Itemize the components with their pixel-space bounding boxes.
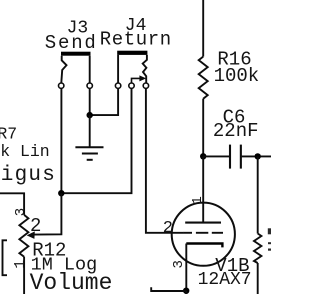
svg-text:Return: Return: [100, 28, 172, 50]
grid dashes of V1B: [183, 232, 223, 234]
wire R16 to plate junction: [202, 99, 204, 157]
jack J4 terminal circle middle: [129, 83, 134, 88]
jack J3 body bar: [61, 52, 91, 56]
ground symbol: [75, 147, 103, 160]
jack J3 switch contact: [61, 56, 66, 83]
jack J4 switch contact: [143, 55, 147, 83]
junction dot send/return/wiper node: [58, 190, 64, 196]
junction dot ground node: [87, 112, 93, 118]
junction dot right node: [255, 153, 261, 159]
wire cathode node to left with stub up: [151, 287, 186, 291]
svg-text:Volume: Volume: [30, 270, 113, 294]
svg-text:3: 3: [171, 260, 187, 268]
triode V1B envelope: [172, 203, 235, 266]
jack J3 terminal circle right: [87, 83, 92, 88]
svg-text:12AX7: 12AX7: [198, 270, 252, 290]
wire J3 right terminal down to ground junction: [89, 88, 91, 115]
wire J3 left terminal down to junction: [60, 88, 62, 193]
svg-text:3: 3: [13, 208, 29, 216]
svg-text:1: 1: [190, 196, 206, 204]
jack J4 body bar: [117, 51, 147, 55]
junction dot plate node: [200, 153, 206, 159]
wire pot bottom terminal: [23, 257, 25, 294]
partial component box at left edge: [3, 240, 8, 275]
svg-text:2: 2: [163, 219, 173, 238]
wiper arrowhead of R12: [27, 231, 35, 239]
wire R17 to bottom edge: [257, 263, 259, 294]
plate lead of V1B: [202, 156, 204, 222]
resistor R17 zigzag (partial at right edge): [254, 234, 261, 264]
wire pot top terminal from left edge: [0, 193, 24, 215]
jack J4 terminal circle left: [115, 83, 120, 88]
wire ground stem: [89, 115, 91, 147]
plate bar of V1B: [185, 222, 221, 224]
jack J4 terminal circle right: [143, 83, 148, 88]
svg-text:Send: Send: [45, 32, 98, 54]
potentiometer R12 zigzag: [19, 215, 28, 257]
svg-text:1: 1: [12, 260, 29, 269]
wire J4 right terminal down then right to tube grid: [146, 88, 183, 232]
jack J3 terminal circle left: [59, 83, 64, 88]
jack J3 right lead: [89, 56, 91, 83]
cathode of V1B: [186, 244, 222, 248]
wire C6 to right node: [242, 155, 271, 157]
wire J4 left terminal down then left to ground junction: [90, 88, 118, 115]
svg-text:22nF: 22nF: [213, 120, 259, 142]
wire top feed of R16: [202, 0, 204, 57]
svg-text:igus: igus: [1, 164, 56, 187]
cathode lead of V1B: [185, 244, 187, 291]
svg-text:100k: 100k: [214, 65, 260, 87]
jack J4 left lead: [117, 55, 119, 83]
svg-text:2: 2: [30, 215, 41, 237]
svg-text:k Lin: k Lin: [0, 142, 50, 161]
capacitor C6 plates: [229, 145, 231, 169]
resistor R16 zigzag: [199, 57, 208, 99]
wire right node down to R17: [257, 156, 259, 233]
jack J4 switch-sense arrow: [132, 78, 141, 82]
wire cathode node to bottom edge: [185, 291, 187, 294]
wire J4 middle terminal down then left to junction: [61, 88, 131, 193]
junction dot cathode node: [183, 288, 189, 294]
partial label R17 at right edge: [268, 228, 271, 234]
wire plate node to C6: [203, 155, 229, 157]
wire junction down to wiper corner: [35, 193, 62, 234]
